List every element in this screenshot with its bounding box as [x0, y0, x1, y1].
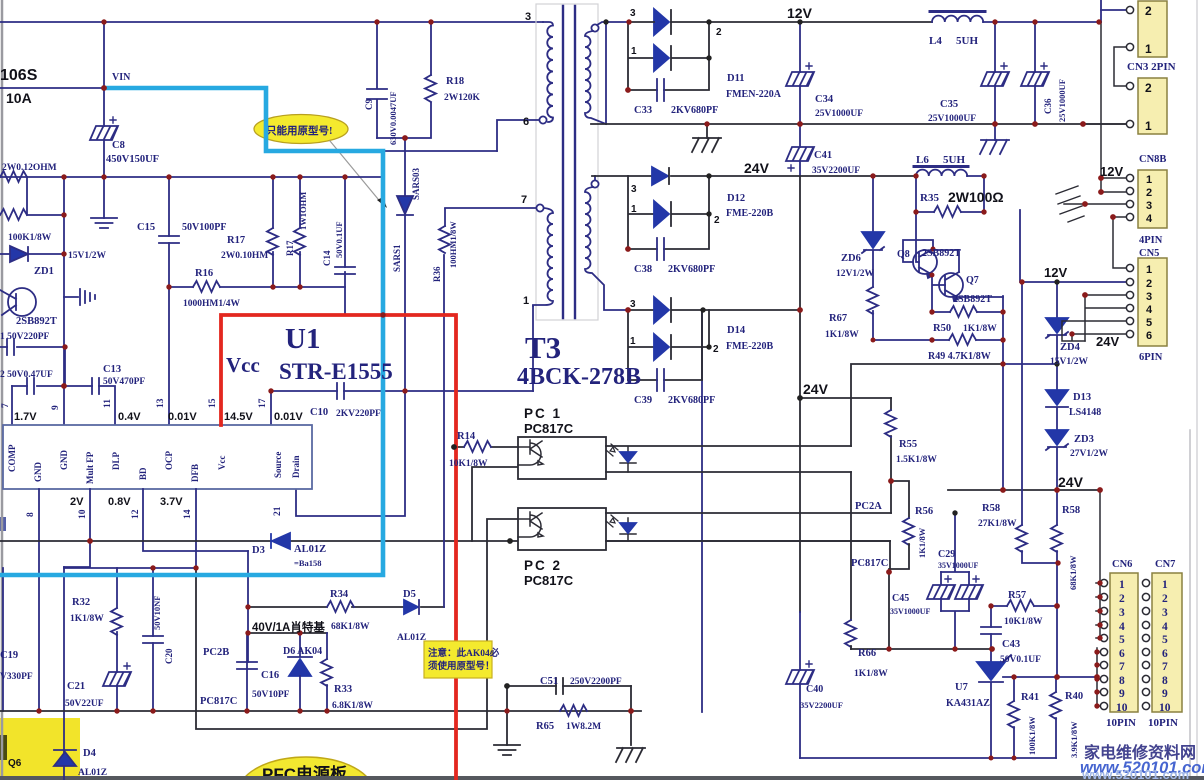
resistor R16	[169, 281, 345, 292]
svg-text:C16: C16	[261, 670, 279, 681]
svg-text:35V1000UF: 35V1000UF	[938, 561, 979, 570]
wire x64 vertical	[63, 177, 65, 386]
svg-text:3: 3	[1119, 607, 1125, 619]
svg-text:CN6: CN6	[1112, 559, 1132, 570]
resistor R34	[327, 601, 354, 612]
svg-text:3: 3	[1162, 607, 1168, 619]
svg-text:Vcc: Vcc	[226, 353, 260, 377]
svg-text:R32: R32	[72, 597, 90, 608]
svg-text:25V1000UF: 25V1000UF	[1057, 79, 1067, 122]
svg-text:C14: C14	[322, 250, 332, 266]
svg-text:PC 1: PC 1	[524, 406, 562, 421]
svg-text:R58: R58	[982, 503, 1000, 514]
svg-text:2SB892T: 2SB892T	[953, 294, 992, 305]
capacitor C8	[90, 117, 118, 140]
rake ground right of R65	[616, 748, 645, 762]
svg-text:DLP: DLP	[111, 451, 121, 470]
capacitor C20	[143, 568, 163, 711]
wire VIN highlight (cyan)	[0, 88, 383, 575]
svg-text:14.5V: 14.5V	[224, 411, 253, 423]
svg-text:D5: D5	[403, 589, 416, 600]
ground bars right of x64	[64, 289, 95, 305]
svg-text:C29: C29	[938, 549, 955, 560]
transistor Q8	[913, 249, 937, 278]
wire R36 column lower	[443, 255, 445, 607]
svg-text:2: 2	[1119, 593, 1125, 605]
svg-text:=Ba158: =Ba158	[294, 558, 322, 568]
wire CN5 pins5-6 24V	[1062, 321, 1126, 341]
svg-text:LS4148: LS4148	[1069, 407, 1101, 418]
svg-text:C40: C40	[806, 684, 823, 695]
capacitor C21 electrolytic	[103, 663, 131, 711]
wire main bus y177	[0, 176, 383, 178]
resistor 2W0.12OHM	[0, 171, 27, 182]
svg-text:D6 AK04: D6 AK04	[283, 646, 322, 657]
svg-text:106S: 106S	[0, 67, 38, 84]
svg-text:L4: L4	[929, 35, 942, 47]
wire gnd line y124	[591, 123, 1126, 125]
ground below C8	[91, 218, 117, 228]
svg-text:1: 1	[1146, 174, 1152, 186]
capacitor C11	[0, 339, 65, 355]
svg-text:C38: C38	[634, 264, 652, 275]
diode SARS1 with SARS03	[397, 138, 413, 391]
resistor R17b 1W1OHM	[294, 177, 305, 287]
IC pin names rotated	[7, 444, 301, 484]
svg-text:AL01Z: AL01Z	[397, 633, 426, 643]
resistor R17	[267, 177, 278, 287]
svg-text:R67: R67	[829, 313, 847, 324]
wire pin7	[11, 386, 13, 425]
opto PC1 PC817C	[518, 437, 636, 479]
svg-text:2W120K: 2W120K	[444, 93, 481, 103]
capacitor C12 50V0.47UF	[12, 378, 92, 394]
svg-text:CN8B: CN8B	[1139, 154, 1166, 165]
zener ZD6	[862, 176, 884, 287]
diode D14a	[628, 297, 800, 323]
resistor R50	[932, 306, 1003, 317]
earth ground below C51	[494, 745, 520, 755]
diode D14b	[628, 310, 709, 380]
wire D14 output column x702	[701, 310, 703, 712]
svg-text:4: 4	[1146, 213, 1153, 225]
svg-text:Vcc: Vcc	[217, 456, 227, 471]
wire x104 vertical	[103, 22, 105, 177]
svg-text:24V: 24V	[1096, 334, 1119, 349]
svg-text:SARS1: SARS1	[392, 244, 402, 272]
svg-text:C8: C8	[112, 140, 125, 151]
winding secondary upper	[591, 22, 628, 32]
svg-text:25V1000UF: 25V1000UF	[815, 109, 863, 119]
svg-text:C43: C43	[1002, 639, 1020, 650]
wire bottom return rail	[800, 757, 1056, 759]
svg-text:1.5K1/8W: 1.5K1/8W	[896, 455, 937, 465]
svg-text:C33: C33	[634, 105, 652, 116]
svg-text:C35: C35	[940, 99, 958, 110]
wire Q7 base x932	[932, 275, 945, 312]
svg-text:68K1/8W: 68K1/8W	[1068, 555, 1078, 590]
svg-text:C13: C13	[103, 364, 121, 375]
svg-text:1W8.2M: 1W8.2M	[566, 722, 601, 732]
svg-text:T3: T3	[525, 330, 561, 365]
wire divider column x1057	[1056, 563, 1058, 677]
svg-text:FMEN-220A: FMEN-220A	[726, 89, 782, 100]
wire PC1 anode riser x851	[851, 364, 1003, 446]
svg-text:BD: BD	[138, 467, 148, 480]
opto PC2 PC817C	[518, 508, 636, 550]
capacitor C34	[786, 22, 814, 124]
wire CN5 pins3-4 tie	[1085, 295, 1126, 341]
svg-text:1: 1	[631, 204, 637, 215]
wire pin12 jog	[143, 489, 248, 551]
wire R55 node jogs	[891, 481, 909, 518]
node dots connector feeds	[1098, 175, 1104, 181]
svg-text:R56: R56	[915, 506, 933, 517]
wire top rail y22	[0, 21, 543, 23]
wire feedback row y568	[64, 567, 196, 569]
bottom-left yellow highlight block	[0, 718, 80, 780]
svg-text:Q8: Q8	[897, 249, 910, 260]
wire Q8 collector loop	[903, 240, 933, 262]
pin number labels rotated	[1, 398, 283, 519]
svg-text:0.01V: 0.01V	[168, 411, 197, 423]
svg-text:R18: R18	[446, 76, 464, 87]
svg-text:C10: C10	[310, 407, 328, 418]
svg-text:C41: C41	[814, 150, 832, 161]
resistor R66	[845, 620, 856, 649]
svg-text:D12: D12	[727, 193, 745, 204]
svg-text:4: 4	[1146, 304, 1153, 316]
svg-text:R40: R40	[1065, 691, 1083, 702]
wire 24V rail y490	[948, 489, 1100, 491]
connector CN7	[1142, 573, 1182, 712]
wire CN3 pin1 link	[1114, 47, 1126, 86]
svg-text:24V: 24V	[744, 160, 770, 176]
svg-text:Drain: Drain	[291, 456, 301, 479]
callout ellipse 只能用原型号	[254, 115, 387, 209]
svg-text:KA431AZ: KA431AZ	[946, 698, 990, 709]
svg-text:ZD6: ZD6	[841, 253, 861, 264]
svg-text:7: 7	[521, 194, 527, 206]
wire transformer pin1 drop	[532, 306, 534, 391]
wire PC1 emitter drop	[472, 467, 518, 541]
svg-text:10K1/8W: 10K1/8W	[449, 459, 488, 469]
svg-text:R14: R14	[457, 431, 476, 442]
wire pin14	[195, 489, 197, 568]
resistor R58b 68K	[1051, 490, 1062, 563]
svg-text:15: 15	[208, 398, 218, 408]
wire 24V node x800 column	[799, 176, 801, 612]
svg-text:1W1OHM: 1W1OHM	[298, 192, 308, 230]
svg-text:C36: C36	[1043, 98, 1053, 114]
diode D3	[271, 533, 290, 549]
svg-text:D11: D11	[727, 73, 745, 84]
svg-text:2: 2	[716, 27, 722, 38]
svg-text:OCP: OCP	[164, 451, 174, 471]
svg-text:2KV680PF: 2KV680PF	[668, 264, 715, 275]
wire CN3 pin2 stub	[1101, 9, 1126, 11]
svg-text:12V1/2W: 12V1/2W	[836, 269, 875, 279]
svg-text:2KV220PF: 2KV220PF	[336, 409, 381, 419]
wire R34 D5 row	[248, 606, 444, 608]
wire 12V line to CN5	[1020, 210, 1126, 282]
svg-text:17: 17	[258, 398, 268, 408]
wire PC1 output lines	[606, 364, 1003, 649]
svg-text:2: 2	[713, 344, 719, 355]
left-edge component remnant	[0, 517, 6, 531]
pin 6 circle	[497, 116, 547, 151]
svg-text:100HM1/8W: 100HM1/8W	[448, 221, 458, 268]
svg-text:AL01Z: AL01Z	[78, 768, 107, 778]
svg-text:1 50V220PF: 1 50V220PF	[0, 332, 50, 342]
node dots primary	[101, 19, 106, 24]
svg-text:R17: R17	[285, 240, 295, 256]
capacitor C9	[367, 22, 387, 138]
svg-text:GND: GND	[59, 450, 69, 471]
svg-text:R65: R65	[536, 721, 554, 732]
wire pin9	[63, 386, 65, 425]
svg-text:10: 10	[1159, 702, 1171, 714]
svg-text:6: 6	[1119, 648, 1125, 660]
svg-text:R33: R33	[334, 684, 352, 695]
wire U7 ref row y677	[1003, 676, 1097, 678]
svg-text:50V470PF: 50V470PF	[103, 377, 145, 387]
svg-text:SARS03: SARS03	[411, 167, 421, 200]
svg-text:PC2A: PC2A	[855, 501, 882, 512]
svg-text:R36: R36	[432, 266, 442, 282]
svg-text:R55: R55	[899, 439, 917, 450]
zener ZD1	[0, 246, 64, 262]
capacitor C39	[628, 310, 702, 391]
svg-text:VIN: VIN	[112, 72, 131, 83]
connector CN8B	[1126, 170, 1167, 228]
wire cathode rail y649	[851, 648, 992, 650]
svg-text:5: 5	[1146, 317, 1152, 329]
svg-text:7: 7	[1, 403, 11, 408]
capacitor C33	[628, 22, 709, 101]
svg-text:5UH: 5UH	[956, 35, 978, 47]
svg-text:12V: 12V	[1044, 265, 1067, 280]
svg-text:25V1000UF: 25V1000UF	[928, 114, 976, 124]
svg-text:1.7V: 1.7V	[14, 411, 37, 423]
resistor R14	[456, 441, 518, 452]
svg-text:C19: C19	[0, 650, 18, 661]
wire 24V row y176	[592, 175, 916, 177]
wire C11 to C13 node	[64, 347, 66, 386]
inductor L6	[914, 167, 984, 177]
wire CN6 feed ref pins6-10	[1097, 648, 1100, 706]
capacitor C35	[981, 22, 1009, 124]
svg-text:50V0.1UF: 50V0.1UF	[1000, 655, 1041, 665]
svg-text:R49 4.7K1/8W: R49 4.7K1/8W	[928, 351, 991, 362]
wire pin6 to VIN (under cyan)	[383, 150, 497, 152]
capacitor C45 electrolytic	[927, 572, 955, 611]
rake ground CN8B pin3	[1056, 186, 1126, 222]
wire y364 to ZD col	[1003, 363, 1057, 365]
wire pin13 column	[168, 287, 170, 425]
svg-text:0.4V: 0.4V	[118, 411, 141, 423]
svg-text:24V: 24V	[1058, 474, 1084, 490]
wire CN8B pin4 to CN5 pin1	[1113, 217, 1126, 268]
svg-text:DFB: DFB	[190, 464, 200, 482]
svg-text:13: 13	[156, 398, 166, 408]
svg-text:2: 2	[1145, 4, 1152, 18]
wire Q8 base feed	[916, 212, 919, 262]
svg-text:AL01Z: AL01Z	[294, 544, 326, 555]
svg-text:STR-E1555: STR-E1555	[279, 359, 393, 384]
node dots right feedback	[797, 307, 803, 313]
wire schottky rail y633	[248, 632, 327, 634]
resistor R58a 27K	[1016, 282, 1058, 563]
svg-text:7: 7	[1119, 661, 1125, 673]
resistor R49	[873, 334, 1003, 345]
wire PC2 output lines	[606, 513, 891, 541]
svg-text:6: 6	[523, 116, 529, 128]
svg-text:15V1/2W: 15V1/2W	[68, 251, 107, 261]
svg-text:U7: U7	[955, 682, 968, 693]
svg-text:2SB892T: 2SB892T	[922, 248, 961, 259]
resistor R35	[916, 176, 984, 217]
wire PC1 cathode to R66	[850, 472, 852, 620]
svg-text:14: 14	[183, 509, 193, 519]
svg-text:V330PF: V330PF	[0, 672, 33, 682]
svg-text:3: 3	[631, 184, 637, 195]
resistor R55	[885, 398, 896, 481]
svg-text:10PIN: 10PIN	[1148, 717, 1178, 729]
resistor R36	[439, 209, 450, 253]
resistor R56	[889, 518, 914, 569]
svg-text:C9: C9	[364, 99, 374, 110]
svg-text:5: 5	[1119, 634, 1125, 646]
wire drain jog to pin21	[296, 391, 405, 516]
connector CN3 box A	[1126, 1, 1167, 57]
svg-text:2KV680PF: 2KV680PF	[668, 395, 715, 406]
svg-text:R35: R35	[920, 192, 939, 204]
svg-text:1: 1	[630, 336, 636, 347]
diode D12a	[652, 167, 669, 185]
svg-text:3: 3	[630, 299, 636, 310]
winding primary upper pin3	[543, 22, 553, 122]
capacitor C38	[628, 176, 709, 260]
svg-text:8: 8	[26, 512, 36, 517]
diode D4	[54, 750, 76, 766]
svg-text:2W100Ω: 2W100Ω	[948, 189, 1004, 205]
svg-text:2KV680PF: 2KV680PF	[671, 105, 718, 116]
svg-text:C15: C15	[137, 222, 155, 233]
svg-text:35V2200UF: 35V2200UF	[812, 166, 860, 176]
svg-text:100K1/8W: 100K1/8W	[8, 233, 52, 243]
svg-text:1: 1	[631, 46, 637, 57]
node dots rectifier area	[603, 19, 608, 24]
capacitor C16	[237, 633, 257, 711]
svg-text:6: 6	[1146, 330, 1152, 342]
svg-text:12V: 12V	[787, 5, 813, 21]
svg-text:2SB892T: 2SB892T	[16, 316, 57, 327]
svg-text:Mult FP: Mult FP	[85, 451, 95, 484]
svg-text:9: 9	[51, 405, 61, 410]
diode D12b	[628, 176, 709, 249]
svg-text:Q7: Q7	[966, 275, 979, 286]
svg-text:R58: R58	[1062, 505, 1080, 516]
svg-text:50V22UF: 50V22UF	[65, 699, 104, 709]
svg-text:1: 1	[1119, 579, 1125, 591]
svg-text:10PIN: 10PIN	[1106, 717, 1136, 729]
wire PC2 gnd drop x890	[889, 541, 890, 649]
wire 24V row to R55	[800, 397, 891, 399]
diode D13	[1046, 364, 1068, 430]
svg-text:1000HM1/4W: 1000HM1/4W	[183, 299, 240, 309]
wire CN6 stubs pins1-5	[1096, 583, 1101, 638]
svg-text:D14: D14	[727, 325, 746, 336]
svg-text:R41: R41	[1021, 692, 1039, 703]
svg-text:50V100PF: 50V100PF	[182, 222, 226, 233]
svg-text:450V150UF: 450V150UF	[106, 154, 159, 165]
svg-text:2: 2	[1146, 278, 1152, 290]
svg-text:须使用原型号！: 须使用原型号！	[427, 660, 495, 672]
wire C51 right leg	[630, 686, 632, 745]
resistor R40	[1050, 677, 1061, 758]
svg-text:PC2B: PC2B	[203, 647, 229, 658]
svg-text:15V1/2W: 15V1/2W	[1050, 357, 1089, 367]
capacitor C41	[786, 124, 814, 176]
shunt regulator U7 KA431AZ	[977, 649, 1011, 758]
svg-text:3: 3	[630, 8, 636, 19]
svg-text:100K1/8W: 100K1/8W	[1027, 716, 1037, 755]
svg-text:COMP: COMP	[7, 444, 17, 472]
wire Vcc highlight (red)	[221, 315, 456, 780]
resistor R41	[1008, 677, 1019, 758]
wire bottom rail y711	[0, 710, 641, 712]
resistor 100K1/8W	[0, 177, 64, 220]
svg-text:2W0.10HM: 2W0.10HM	[221, 251, 268, 261]
svg-text:4: 4	[1162, 621, 1168, 633]
svg-text:PC817C: PC817C	[851, 558, 888, 569]
diode D11b	[628, 22, 709, 90]
svg-text:8: 8	[1162, 675, 1168, 687]
wire 12V top right riser	[1100, 0, 1102, 22]
transistor Q7	[933, 250, 1003, 301]
svg-text:C45: C45	[892, 593, 909, 604]
svg-text:2 50V0.47UF: 2 50V0.47UF	[0, 370, 53, 380]
resistor R18	[377, 22, 436, 138]
svg-text:4BCK-278B: 4BCK-278B	[517, 364, 641, 390]
svg-text:68K1/8W: 68K1/8W	[331, 622, 370, 632]
svg-text:10: 10	[78, 509, 88, 519]
inductor L4	[930, 12, 1101, 23]
svg-text:注意：此AK04必: 注意：此AK04必	[428, 647, 500, 659]
capacitor C36	[1021, 22, 1049, 124]
svg-text:50V10PF: 50V10PF	[252, 690, 290, 700]
yellow note box 注意 AK04	[424, 641, 500, 678]
wire x64 lower run to D4	[63, 567, 65, 780]
wire 12V feed CN8B	[1101, 22, 1126, 192]
svg-text:只能用原型号!: 只能用原型号!	[266, 124, 333, 137]
wire box pin14 loop	[196, 519, 518, 729]
svg-text:FME-220B: FME-220B	[726, 341, 774, 352]
svg-text:R16: R16	[195, 268, 213, 279]
svg-text:5UH: 5UH	[943, 154, 965, 166]
svg-text:CN7: CN7	[1155, 559, 1175, 570]
svg-text:1: 1	[1146, 264, 1152, 276]
svg-text:2: 2	[1146, 187, 1152, 199]
svg-text:4: 4	[1119, 621, 1125, 633]
svg-text:ZD4: ZD4	[1060, 342, 1081, 353]
wire ground line y541	[0, 540, 890, 542]
svg-text:GND: GND	[33, 462, 43, 483]
svg-text:1: 1	[1145, 42, 1152, 56]
svg-text:D4: D4	[83, 748, 97, 759]
svg-text:D13: D13	[1073, 392, 1091, 403]
